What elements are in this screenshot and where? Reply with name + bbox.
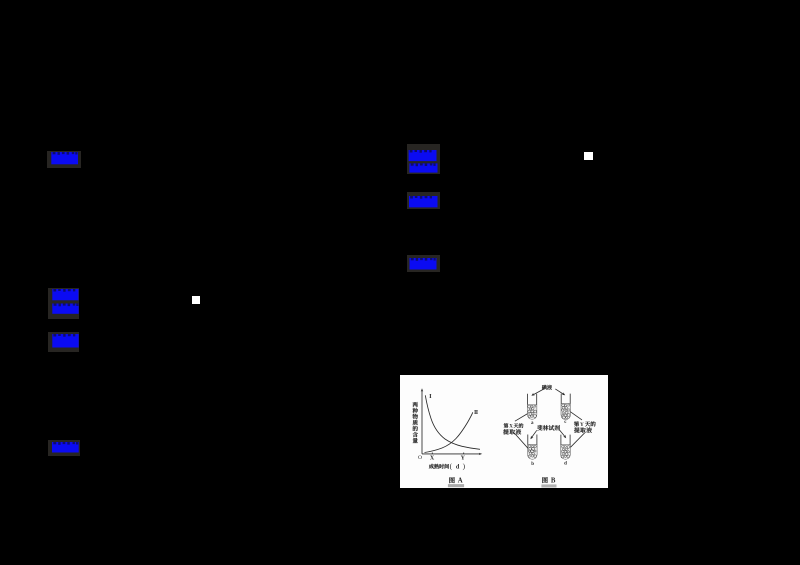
- label 提取液 (right): [574, 427, 580, 432]
- connector left 提取液 to tube b: [514, 433, 528, 448]
- answer box 1 (left column): gray surround + blue highlight: [47, 151, 81, 169]
- label 提取液 (left): [503, 429, 509, 434]
- caption 图A with gray bar: [449, 477, 454, 483]
- tube content texture: [528, 404, 571, 459]
- svg-text:X: X: [430, 456, 435, 462]
- graph text labels O X Y I II: [418, 393, 479, 462]
- arrow 碘液 to tube a: [533, 389, 544, 395]
- test tube d: [561, 435, 570, 460]
- test tube a: [528, 394, 537, 419]
- connector right 提取液 to tube d: [571, 433, 585, 447]
- arrow 斐林试剂 to tube d: [560, 430, 566, 437]
- caption 图B with gray bar: [542, 477, 547, 483]
- figure panel white background: [400, 375, 608, 488]
- white square marker (right column): [584, 152, 593, 160]
- label 碘液: [542, 385, 547, 390]
- svg-text:b: b: [531, 462, 534, 467]
- x-axis caption 成熟时间（d）: [429, 464, 434, 469]
- white square marker (left column): [192, 296, 200, 304]
- label 斐林试剂: [537, 425, 543, 430]
- label 第X天的: [504, 423, 509, 428]
- biology figure panel (图A graph + 图B test tubes): [400, 375, 608, 488]
- svg-text:O: O: [418, 455, 422, 461]
- svg-text:Y: Y: [580, 422, 584, 428]
- curve I (decreasing): [425, 395, 480, 449]
- answer box 5 (left column, two highlighted lines): [48, 288, 80, 320]
- answer box 4 (right column): [407, 255, 440, 271]
- svg-text:A: A: [458, 478, 463, 485]
- test tube b: [528, 435, 537, 460]
- label 第Y天的: [574, 421, 579, 426]
- answer box 3 (right column): [407, 192, 440, 209]
- svg-text:B: B: [551, 478, 556, 485]
- y-axis caption 两种物质的含量 (vertical): [413, 402, 418, 407]
- svg-text:d: d: [456, 463, 460, 470]
- connector X-label to tube a: [515, 414, 528, 422]
- answer box 2 (right column, two highlighted lines): [407, 144, 440, 175]
- test tube c: [561, 394, 570, 420]
- curve II (increasing): [425, 412, 473, 452]
- arrow 斐林试剂 to tube b: [531, 430, 537, 438]
- answer box 6 (left column): [48, 332, 80, 352]
- svg-text:X: X: [509, 425, 513, 430]
- arrow 碘液 to tube c: [555, 389, 564, 395]
- graph axes 图A: [422, 390, 481, 454]
- tube letter labels a c b d: [531, 420, 567, 467]
- answer box 7 (left column): [48, 440, 80, 456]
- svg-text:d: d: [564, 462, 567, 467]
- connector Y-label to tube c: [570, 412, 582, 420]
